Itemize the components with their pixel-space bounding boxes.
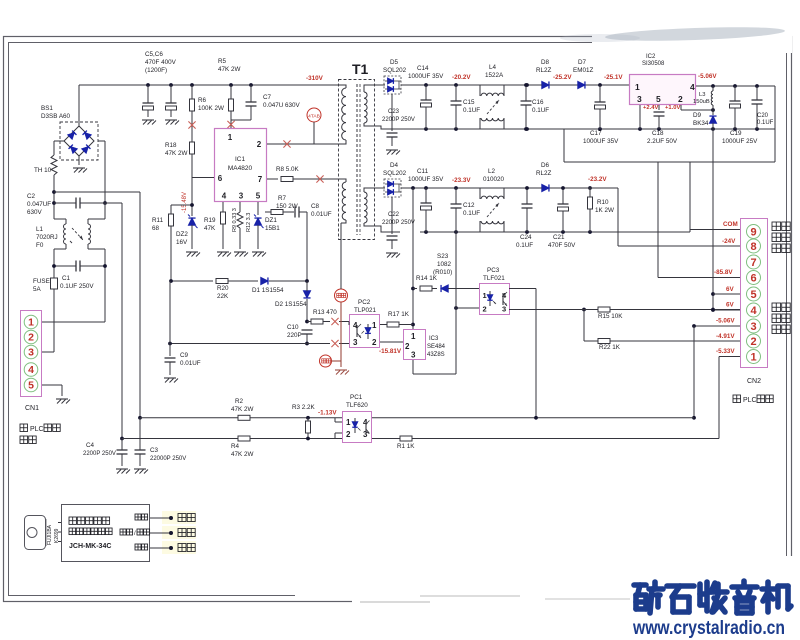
- svg-text:6V: 6V: [726, 302, 735, 309]
- svg-text:-25.2V: -25.2V: [553, 74, 572, 81]
- svg-text:D5: D5: [390, 59, 399, 66]
- svg-text:47K 2W: 47K 2W: [218, 66, 240, 73]
- svg-text:R10: R10: [597, 199, 609, 206]
- dual diode D4 box: [384, 179, 401, 197]
- svg-text:CN1: CN1: [25, 405, 39, 412]
- svg-text:1: 1: [483, 291, 487, 300]
- label C19: [722, 130, 758, 145]
- label C23: [382, 109, 415, 123]
- svg-text:5: 5: [750, 289, 756, 301]
- svg-text:5: 5: [656, 94, 661, 104]
- label R3: [292, 404, 316, 411]
- wire 85.8V drop: [658, 162, 741, 278]
- label C24: [516, 234, 533, 249]
- diode D1: [261, 277, 309, 284]
- label C16: [532, 99, 549, 114]
- svg-text:IC2: IC2: [646, 54, 656, 60]
- svg-text:L2: L2: [488, 168, 496, 175]
- label D4: [383, 162, 407, 177]
- ground maroon: [335, 370, 349, 375]
- label +1.05V: [665, 105, 680, 111]
- svg-text:220P: 220P: [287, 332, 302, 339]
- wire IC2 out rail: [696, 84, 775, 88]
- zener DZ2: [188, 215, 198, 250]
- svg-text:IC1: IC1: [235, 156, 246, 163]
- label R17: [388, 311, 410, 318]
- svg-text:R12 3.3: R12 3.3: [246, 213, 252, 232]
- PC2 transistor: [357, 324, 361, 338]
- artifact dashes bottom: [360, 596, 630, 602]
- wire aux winding to circle: [340, 223, 342, 289]
- resistor R17: [379, 322, 413, 327]
- label D8: [536, 59, 552, 74]
- diode D2: [303, 281, 310, 321]
- svg-text:TLF021: TLF021: [483, 275, 505, 282]
- svg-text:R1 1K: R1 1K: [397, 443, 415, 450]
- svg-text:D2 1S1554: D2 1S1554: [275, 301, 307, 308]
- label R20: [217, 285, 229, 300]
- wire right end down: [774, 86, 776, 129]
- capacitor C16: [521, 83, 532, 131]
- label blue-line: [178, 529, 195, 537]
- label -4.91V pin2: [716, 333, 735, 340]
- svg-text:C21: C21: [553, 234, 565, 241]
- svg-text:SI30508: SI30508: [642, 61, 665, 67]
- label C18: [647, 130, 678, 145]
- PC1 transistor: [366, 421, 370, 435]
- wire L1 top right step: [88, 203, 105, 224]
- svg-text:R19: R19: [204, 217, 216, 224]
- wire return link down: [564, 129, 775, 162]
- wire bridge right down: [98, 141, 107, 205]
- wire feedback line: [169, 279, 213, 283]
- ground under bridge: [73, 168, 87, 173]
- svg-text:D3SB A60: D3SB A60: [41, 113, 71, 120]
- wire bottom line1: [140, 416, 694, 420]
- label -1.13V: [318, 410, 337, 417]
- capacitor C22: [387, 197, 398, 249]
- svg-text:15B1: 15B1: [265, 225, 280, 232]
- svg-text:R7: R7: [278, 195, 287, 202]
- label D2: [275, 301, 307, 308]
- svg-text:-15.48V: -15.48V: [182, 192, 188, 213]
- svg-text:47K 2W: 47K 2W: [231, 451, 253, 458]
- highlight behind black wire: [162, 541, 196, 554]
- svg-text:5: 5: [28, 380, 34, 392]
- svg-text:8: 8: [750, 241, 756, 253]
- power module box: [62, 505, 150, 562]
- svg-text:D7: D7: [578, 59, 587, 66]
- label R1: [397, 443, 415, 450]
- x-mark at IC1 pin1: [227, 121, 234, 128]
- IC1 pin 6 label: [218, 174, 223, 183]
- capacitor C24: [522, 186, 533, 232]
- wire into PC2 pin3: [339, 343, 349, 345]
- svg-text:3: 3: [411, 351, 416, 360]
- svg-text:-24V: -24V: [722, 238, 736, 245]
- ground C22: [386, 253, 400, 258]
- wire R11 link: [171, 203, 194, 214]
- svg-text:4: 4: [750, 305, 757, 317]
- svg-text:C7: C7: [263, 94, 272, 101]
- svg-text:0.1UF: 0.1UF: [532, 107, 549, 114]
- capacitor C19: [730, 86, 741, 129]
- svg-text:D9: D9: [693, 112, 702, 119]
- label R19: [204, 217, 216, 232]
- wire IC1 pin4 column: [222, 202, 224, 212]
- PC3 pin 1 label: [483, 291, 487, 300]
- svg-text:D8: D8: [541, 59, 550, 66]
- x-mark R13: [331, 318, 338, 325]
- svg-text:R9 0.33 3: R9 0.33 3: [232, 208, 238, 232]
- svg-text:R22 1K: R22 1K: [599, 344, 621, 351]
- svg-text:3: 3: [353, 338, 358, 347]
- connector CN2 pin 6 circle: [747, 271, 761, 285]
- wire L1 bottom left step: [54, 244, 66, 278]
- svg-text:43Z8S: 43Z8S: [427, 352, 445, 358]
- inductor L1 core dashes: [70, 228, 83, 243]
- wire maroon drop: [340, 302, 342, 367]
- svg-text:47K 2W: 47K 2W: [165, 150, 187, 157]
- svg-text:C9: C9: [180, 352, 189, 359]
- IC3 pin 2 label: [405, 342, 410, 351]
- svg-text:7: 7: [750, 257, 756, 269]
- wire IC1 pin7 line: [267, 178, 278, 180]
- rail channel2 bottom: [420, 230, 690, 234]
- label IC1: [228, 156, 253, 172]
- svg-text:0.1UF 250V: 0.1UF 250V: [60, 283, 94, 290]
- svg-text:2: 2: [346, 430, 351, 439]
- svg-text:5: 5: [256, 192, 261, 201]
- capacitor C3: [135, 418, 146, 466]
- test point circle blue-line: [335, 289, 348, 302]
- IC2 pin 1 label: [635, 82, 640, 92]
- svg-text:R2: R2: [235, 398, 244, 405]
- white smear top right: [560, 22, 792, 53]
- svg-text:-15.81V: -15.81V: [379, 348, 402, 355]
- connector CN2 pin 9 circle: [747, 225, 761, 239]
- label -23.3V: [452, 177, 471, 184]
- svg-text:-5.33V: -5.33V: [716, 348, 735, 355]
- svg-text:R18: R18: [165, 142, 177, 149]
- svg-text:D4: D4: [390, 162, 399, 169]
- svg-text:C24: C24: [520, 234, 532, 241]
- IC1 pin 2 label: [257, 140, 262, 149]
- connector CN1 pin 3 circle: [24, 345, 38, 359]
- label C21: [548, 234, 576, 249]
- svg-text:0.1UF: 0.1UF: [516, 242, 533, 249]
- svg-text:-4.91V: -4.91V: [716, 333, 735, 340]
- svg-text:1: 1: [411, 332, 416, 341]
- wire bridge top: [78, 85, 80, 126]
- label -25.2V: [553, 74, 572, 81]
- svg-text:BS1: BS1: [41, 105, 53, 112]
- label D6: [536, 162, 552, 177]
- svg-text:(1200F): (1200F): [145, 67, 167, 74]
- label R15: [598, 313, 623, 320]
- svg-text:68: 68: [152, 225, 160, 232]
- PC1 pin 2 label: [346, 430, 351, 439]
- PC2 pin 2 label: [372, 338, 377, 347]
- capacitor C11: [421, 188, 432, 232]
- label C15: [463, 99, 480, 114]
- svg-text:3: 3: [28, 347, 34, 359]
- label module out power: [135, 544, 148, 550]
- svg-text:D6: D6: [541, 162, 550, 169]
- svg-text:FUSE: FUSE: [33, 278, 50, 285]
- label mainboard-power: [772, 303, 790, 334]
- PC3 LED: [487, 291, 496, 306]
- label to-PLC-mainboard: [20, 424, 60, 433]
- svg-text:+2.4V: +2.4V: [643, 105, 658, 111]
- svg-text:R4: R4: [231, 443, 240, 450]
- label C3: [150, 447, 186, 462]
- capacitor C6: [166, 85, 177, 117]
- inductor L2 choke bottom: [480, 221, 504, 232]
- wire pin1 -5.33V: [719, 357, 741, 439]
- diode D9: [709, 110, 716, 129]
- label terminal: [20, 436, 36, 444]
- IC2 pin 3 label: [637, 94, 642, 104]
- wire green-line stub: [332, 360, 342, 362]
- PC1 pin 1 label: [346, 418, 351, 427]
- svg-text:16V: 16V: [176, 239, 188, 246]
- wire long line y343: [168, 342, 330, 346]
- ground DZ2: [186, 252, 200, 257]
- svg-text:9: 9: [750, 226, 756, 238]
- svg-text:PLC: PLC: [743, 397, 757, 404]
- wire PC2 pin2 to IC3 pin2: [379, 341, 403, 343]
- white smear right frame: [772, 556, 800, 640]
- label C17: [583, 130, 619, 145]
- label C11: [408, 168, 444, 183]
- wire PC1 pin1 step: [335, 418, 342, 422]
- svg-text:3: 3: [239, 192, 244, 201]
- capacitor C9: [165, 358, 176, 375]
- inductor L1 left coil: [64, 224, 67, 244]
- diode D23: [441, 285, 480, 292]
- svg-text:R17 1K: R17 1K: [388, 311, 410, 318]
- capacitor C10: [302, 330, 313, 345]
- IC1 pin 5 label: [256, 192, 261, 201]
- connector CN2 pin 7 circle: [747, 255, 761, 269]
- wire package pin1: [58, 522, 61, 524]
- label D7: [573, 59, 593, 74]
- watermark char shou: [700, 582, 727, 612]
- label -85.8V: [714, 269, 733, 276]
- label D5: [383, 59, 407, 74]
- wire IC1 pin5 column: [257, 202, 259, 215]
- svg-text:C3: C3: [150, 447, 159, 454]
- diode D7: [578, 81, 629, 88]
- svg-text:2.2UF 50V: 2.2UF 50V: [647, 138, 678, 145]
- bridge rectifier BS1 dashed box: [60, 122, 98, 160]
- svg-text:FUJI1BA: FUJI1BA: [47, 524, 53, 545]
- wire CN1 pin5 to ground: [42, 385, 62, 396]
- svg-text:-25.1V: -25.1V: [604, 74, 623, 81]
- svg-text:R3 2.2K: R3 2.2K: [292, 404, 316, 411]
- label D9: [693, 112, 709, 127]
- optocoupler PC3 box: [480, 284, 510, 315]
- capacitor C5: [143, 85, 154, 117]
- svg-text:R15 10K: R15 10K: [598, 313, 623, 320]
- wire IC1 pin2 line: [267, 143, 340, 145]
- connector CN2 box: [741, 219, 768, 368]
- label package FUJI rotated: [47, 524, 53, 545]
- wire TH down: [52, 175, 56, 219]
- label 6V pin5: [726, 286, 735, 293]
- resistor R10: [588, 188, 593, 232]
- wire x713 down: [711, 129, 715, 312]
- x-mark on pin7 wire: [316, 175, 323, 182]
- ground C5: [142, 120, 156, 125]
- label DZ1: [265, 217, 280, 232]
- label IC3: [427, 336, 446, 358]
- svg-text:R13 470: R13 470: [313, 309, 337, 316]
- svg-text:2: 2: [678, 94, 683, 104]
- label red-line: [178, 514, 195, 522]
- svg-text:2200P 250V: 2200P 250V: [382, 117, 415, 123]
- PC3 pin 3 label: [502, 305, 506, 314]
- label C4: [83, 442, 116, 457]
- node C4 junction: [120, 437, 124, 441]
- wire IC2 pin3 down: [639, 105, 641, 129]
- capacitor C17: [595, 85, 606, 129]
- connector CN1 pin 2 circle: [24, 330, 38, 344]
- IC1 pin 3 label: [239, 192, 244, 201]
- label -15.48V rotated: [182, 192, 188, 213]
- resistor R1: [400, 436, 412, 441]
- wire PC1 pin2 step: [335, 433, 342, 439]
- transformer aux winding: [340, 179, 346, 223]
- resistor R6: [190, 85, 195, 144]
- inductor L4 choke top: [480, 85, 504, 96]
- label -25.1V: [604, 74, 623, 81]
- label C12: [463, 202, 480, 217]
- svg-text:0.047U 630V: 0.047U 630V: [263, 102, 301, 109]
- svg-text:47K: 47K: [204, 225, 216, 232]
- svg-text:1: 1: [635, 82, 640, 92]
- highlight behind red wire: [162, 511, 196, 524]
- label 6V pin4: [726, 302, 735, 309]
- svg-text:4TAB: 4TAB: [308, 113, 320, 119]
- svg-text:2: 2: [750, 336, 756, 348]
- connector CN2 pin 4 circle: [747, 303, 761, 317]
- svg-text:3: 3: [750, 321, 756, 333]
- svg-text:-5.06V: -5.06V: [698, 73, 717, 80]
- wire IC2 pin5 down: [658, 105, 660, 110]
- resistor R18: [190, 142, 195, 216]
- test point circle 4TAB: [307, 108, 321, 122]
- resistor R13: [311, 319, 330, 324]
- ground C9: [164, 378, 178, 383]
- wire PC3 pin4 out: [509, 289, 536, 418]
- wire fuse down to CN1 pin3: [42, 289, 54, 352]
- connector CN1 pin 4 circle: [24, 363, 38, 377]
- svg-text:-20.2V: -20.2V: [452, 74, 471, 81]
- label module out C: [135, 514, 148, 520]
- label IC2: [642, 54, 665, 67]
- connector CN1 pin 5 circle: [24, 378, 38, 392]
- svg-text:L1: L1: [36, 226, 44, 233]
- svg-text:-5.06V: -5.06V: [716, 318, 735, 325]
- svg-text:PC1: PC1: [350, 394, 363, 401]
- ground pin3: [234, 252, 248, 257]
- wire x456 vertical: [413, 232, 456, 374]
- svg-text:C18: C18: [652, 130, 664, 137]
- svg-text:BK34: BK34: [693, 120, 709, 127]
- svg-text:22000P 250V: 22000P 250V: [150, 456, 186, 462]
- svg-text:2: 2: [28, 332, 34, 344]
- label R11: [152, 217, 164, 232]
- label T1: [352, 61, 369, 77]
- svg-text:TH 10: TH 10: [34, 167, 52, 174]
- svg-text:2: 2: [483, 305, 487, 314]
- label -23.2V: [588, 176, 607, 183]
- svg-text:PC2: PC2: [358, 299, 371, 306]
- label PC3: [483, 267, 505, 282]
- resistor R14: [413, 286, 437, 291]
- IC1 pin 1 label: [228, 133, 233, 142]
- label C8: [311, 203, 332, 218]
- wire IC2 pin2 to L3: [681, 105, 715, 112]
- capacitor C2: [54, 198, 105, 209]
- ground C4: [116, 469, 130, 474]
- label L1: [36, 226, 58, 249]
- resistor R20: [216, 279, 258, 284]
- label module out run-stop: [120, 529, 150, 537]
- label +2.48V: [643, 105, 658, 111]
- wire IC1 pin6 to DZ2 column: [192, 144, 214, 178]
- svg-text:4: 4: [690, 82, 695, 92]
- svg-text:C2: C2: [27, 193, 36, 200]
- wire R5-C7 bottom link: [231, 120, 251, 128]
- resistor R22: [584, 339, 741, 344]
- svg-text:C19: C19: [730, 130, 742, 137]
- svg-text:R8 5.0K: R8 5.0K: [276, 166, 300, 173]
- inductor L4 arrow: [487, 100, 499, 114]
- connector CN2 pin 1 circle: [747, 350, 761, 364]
- svg-text:R6: R6: [198, 97, 207, 104]
- PC2 pin 4 label: [353, 321, 358, 330]
- svg-text:C16: C16: [532, 99, 544, 106]
- PC2 pin 1 label: [372, 321, 377, 330]
- svg-text:T1: T1: [352, 61, 369, 77]
- capacitor C23: [387, 94, 398, 146]
- wire x584 drop: [583, 310, 585, 342]
- wire x170 vertical: [169, 281, 171, 356]
- svg-text:1000UF 25V: 1000UF 25V: [722, 138, 758, 145]
- watermark char ji: [762, 582, 791, 612]
- label input-port-power: [772, 222, 790, 253]
- capacitor C8: [295, 207, 307, 282]
- optocoupler PC1 box: [343, 412, 372, 443]
- label -310V: [306, 75, 324, 82]
- IC3 pin 3 label: [411, 351, 416, 360]
- svg-text:+1.0V: +1.0V: [665, 105, 680, 111]
- label CN1: [25, 405, 39, 412]
- test point circle green-line: [320, 355, 332, 367]
- svg-text:DZ2: DZ2: [176, 231, 188, 238]
- svg-text:PLC: PLC: [30, 426, 44, 433]
- svg-text:EM01Z: EM01Z: [573, 67, 593, 74]
- optocoupler PC2 box: [350, 315, 380, 348]
- resistor R2: [238, 415, 250, 420]
- label C20: [757, 113, 774, 126]
- label C9: [180, 352, 201, 367]
- svg-text:2: 2: [405, 342, 410, 351]
- inductor L1 right coil: [88, 224, 91, 244]
